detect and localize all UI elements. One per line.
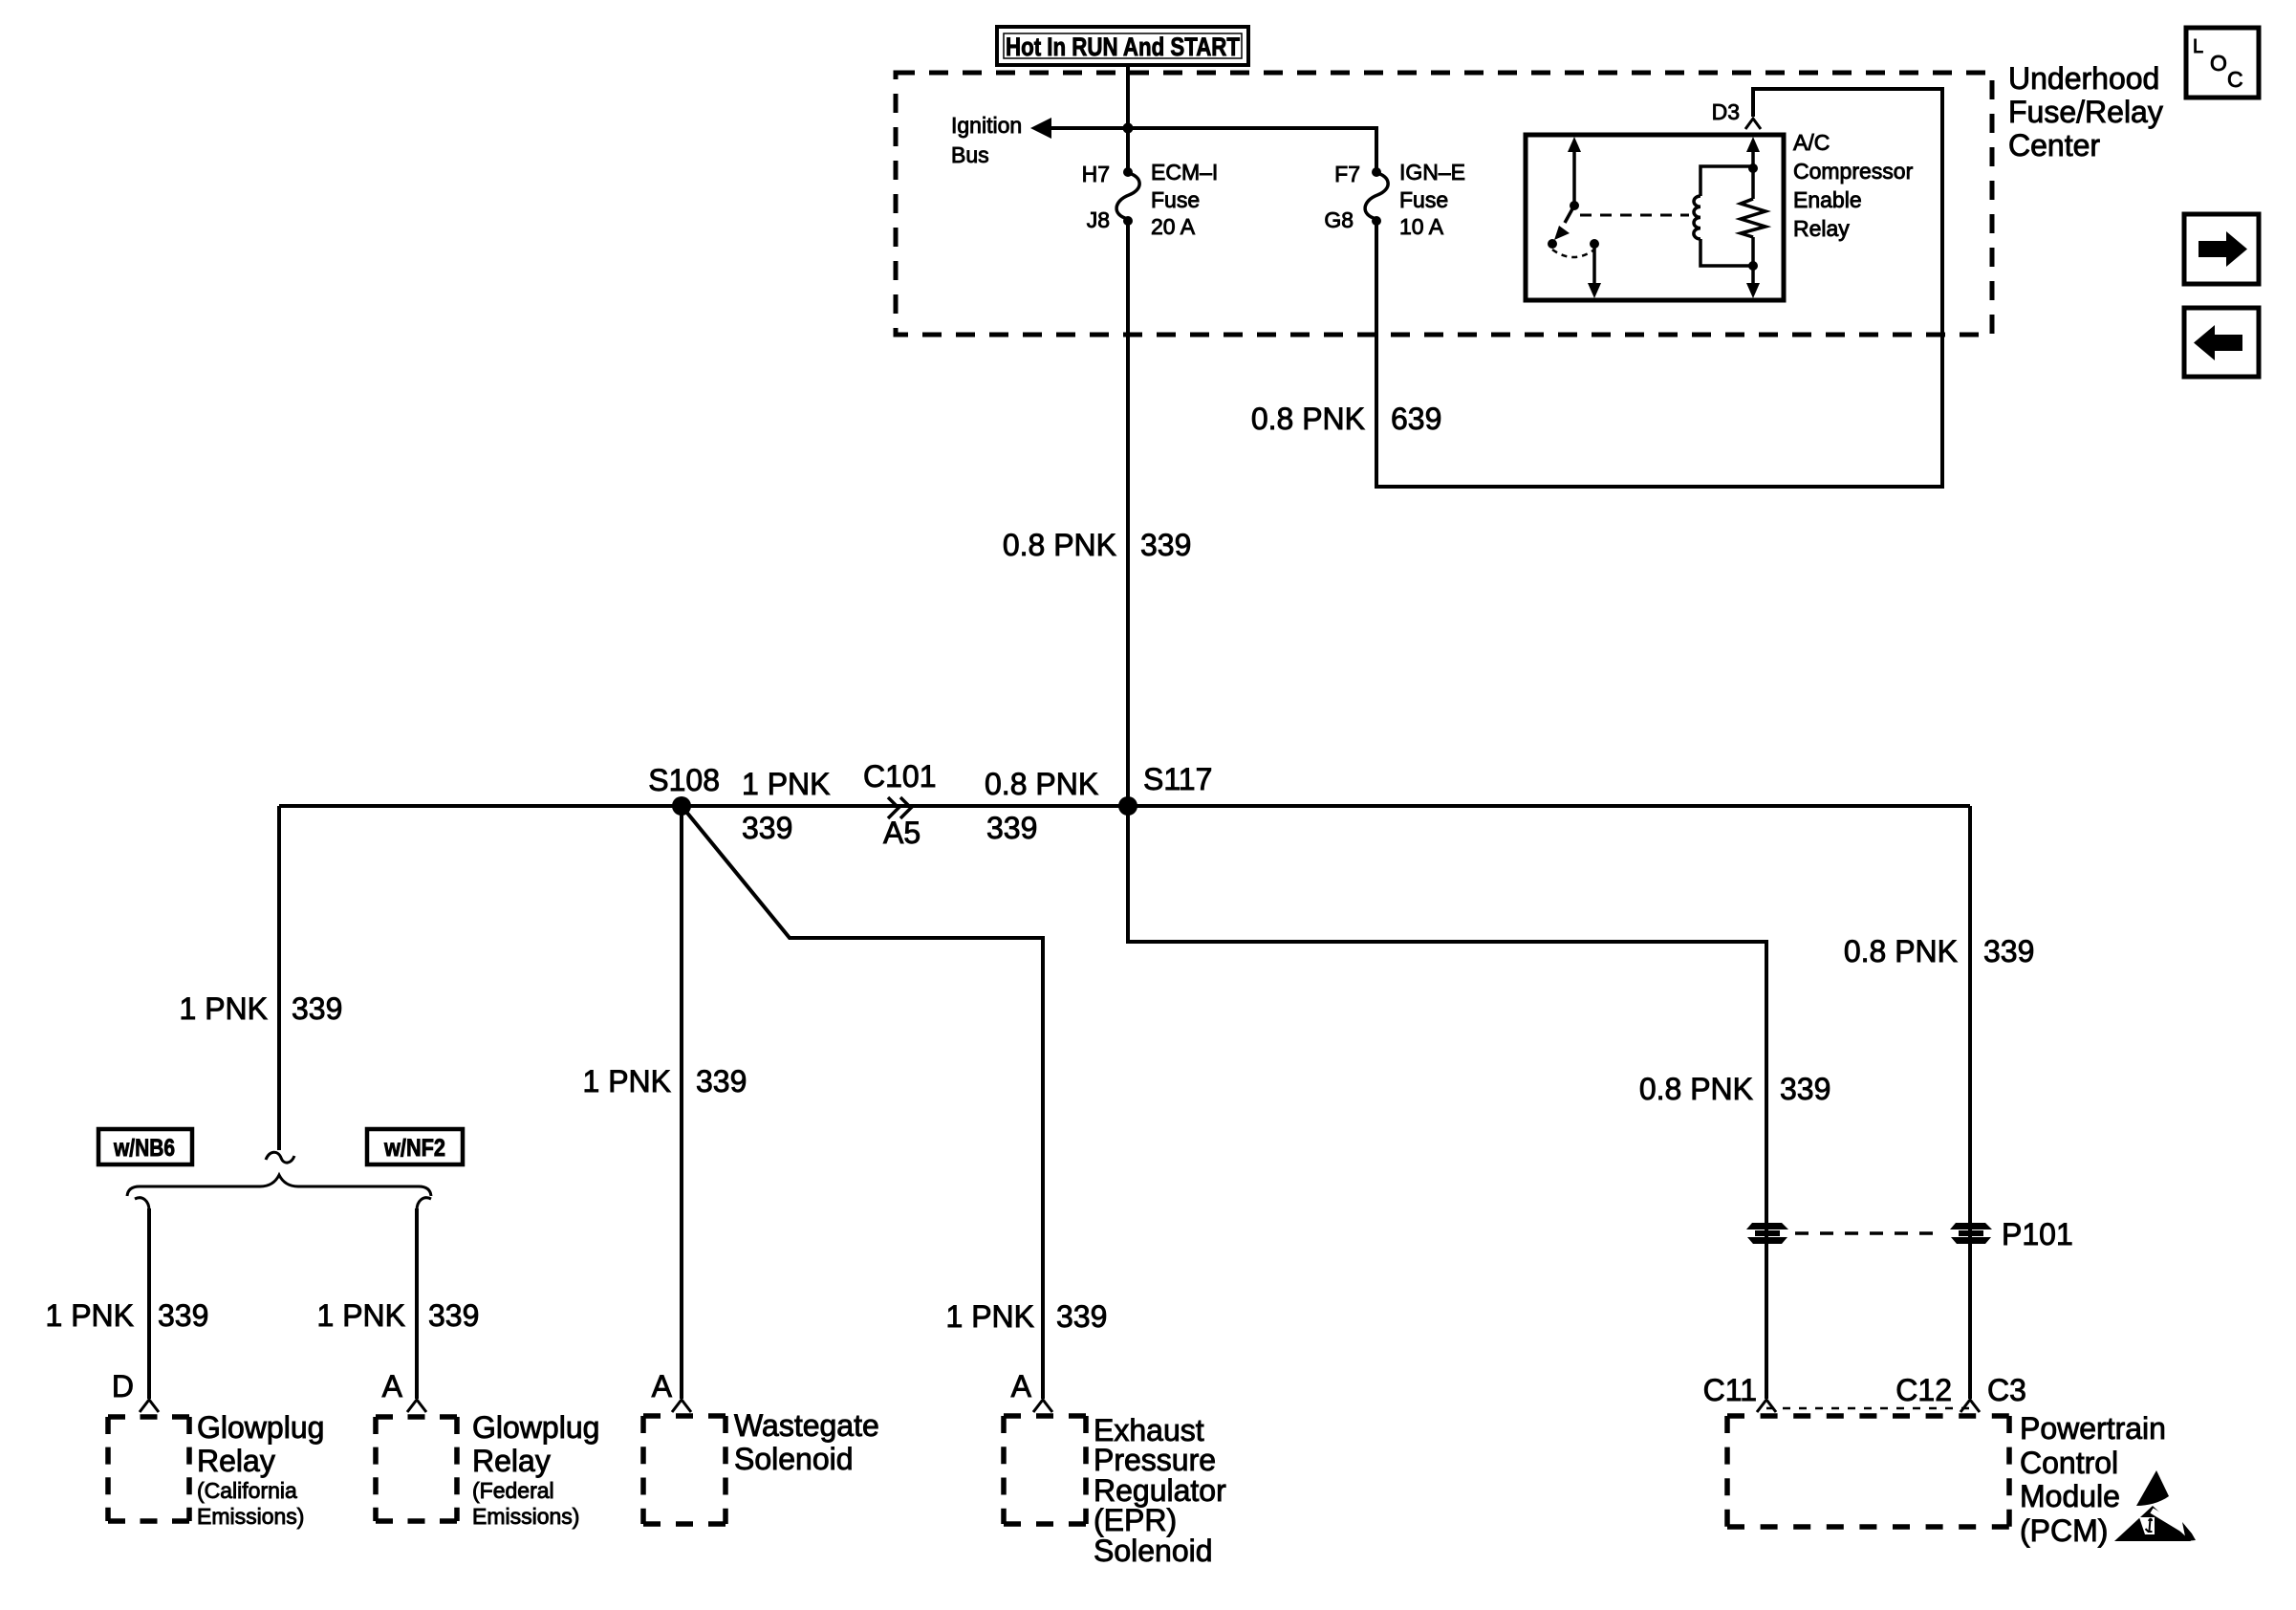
svg-text:10 A: 10 A (1399, 214, 1444, 239)
svg-text:w/NB6: w/NB6 (113, 1135, 175, 1162)
svg-text:A/C: A/C (1793, 130, 1830, 155)
svg-text:Hot In RUN And START: Hot In RUN And START (1006, 33, 1240, 61)
svg-text:A: A (652, 1369, 673, 1403)
svg-text:1 PNK: 1 PNK (742, 767, 830, 801)
svg-text:D3: D3 (1712, 99, 1740, 124)
svg-text:A: A (1011, 1369, 1032, 1403)
svg-text:C12: C12 (1895, 1373, 1952, 1407)
svg-text:Emissions): Emissions) (197, 1504, 304, 1529)
svg-text:(PCM): (PCM) (2020, 1513, 2108, 1548)
svg-text:339: 339 (1056, 1299, 1107, 1334)
svg-text:1 PNK: 1 PNK (180, 991, 268, 1026)
svg-text:Powertrain: Powertrain (2020, 1411, 2166, 1446)
svg-text:(EPR): (EPR) (1094, 1503, 1177, 1537)
svg-text:Solenoid: Solenoid (734, 1442, 854, 1476)
svg-text:A: A (382, 1369, 403, 1403)
svg-text:Fuse: Fuse (1399, 187, 1448, 212)
svg-text:(Federal: (Federal (472, 1478, 554, 1503)
svg-text:ECM–I: ECM–I (1151, 160, 1218, 185)
svg-text:G8: G8 (1324, 207, 1354, 232)
svg-text:0.8 PNK: 0.8 PNK (985, 767, 1098, 801)
svg-text:20 A: 20 A (1151, 214, 1196, 239)
svg-text:339: 339 (1780, 1072, 1830, 1106)
svg-text:w/NF2: w/NF2 (383, 1135, 445, 1162)
svg-text:1 PNK: 1 PNK (583, 1064, 671, 1099)
svg-text:O: O (2210, 51, 2227, 76)
svg-text:0.8 PNK: 0.8 PNK (1639, 1072, 1753, 1106)
svg-text:A5: A5 (883, 816, 921, 850)
svg-text:Fuse: Fuse (1151, 187, 1200, 212)
svg-text:(California: (California (197, 1478, 297, 1503)
svg-text:339: 339 (742, 811, 792, 845)
svg-text:0.8 PNK: 0.8 PNK (1003, 528, 1116, 562)
svg-text:Enable: Enable (1793, 187, 1862, 212)
svg-text:339: 339 (1140, 528, 1191, 562)
svg-text:339: 339 (292, 991, 342, 1026)
svg-text:F7: F7 (1334, 162, 1360, 186)
svg-text:Relay: Relay (197, 1444, 275, 1478)
svg-text:C3: C3 (1987, 1373, 2026, 1407)
svg-text:Bus: Bus (951, 142, 989, 167)
svg-text:S108: S108 (648, 763, 720, 797)
svg-text:J8: J8 (1087, 207, 1110, 232)
svg-text:339: 339 (158, 1298, 208, 1333)
svg-text:Pressure: Pressure (1094, 1443, 1216, 1477)
svg-text:1 PNK: 1 PNK (46, 1298, 134, 1333)
svg-text:Glowplug: Glowplug (472, 1410, 599, 1445)
svg-text:IGN–E: IGN–E (1399, 160, 1465, 185)
svg-text:1 PNK: 1 PNK (946, 1299, 1034, 1334)
svg-text:Glowplug: Glowplug (197, 1410, 324, 1445)
svg-text:1 PNK: 1 PNK (317, 1298, 405, 1333)
svg-text:0.8 PNK: 0.8 PNK (1844, 934, 1958, 968)
svg-text:Compressor: Compressor (1793, 159, 1914, 184)
svg-text:Solenoid: Solenoid (1094, 1534, 1213, 1568)
svg-text:339: 339 (1983, 934, 2034, 968)
svg-text:Module: Module (2020, 1479, 2120, 1513)
svg-text:C: C (2227, 67, 2243, 92)
svg-text:Relay: Relay (1793, 216, 1850, 241)
svg-text:Relay: Relay (472, 1444, 551, 1478)
svg-text:Wastegate: Wastegate (734, 1408, 879, 1443)
svg-text:639: 639 (1391, 402, 1441, 436)
svg-text:Ignition: Ignition (951, 113, 1022, 138)
svg-text:Center: Center (2008, 128, 2100, 163)
svg-text:0.8 PNK: 0.8 PNK (1251, 402, 1365, 436)
svg-text:Underhood: Underhood (2008, 61, 2159, 96)
svg-text:P101: P101 (2002, 1217, 2073, 1251)
svg-text:L: L (2193, 36, 2203, 57)
svg-text:H7: H7 (1082, 162, 1110, 186)
svg-text:S117: S117 (1143, 762, 1212, 796)
svg-text:339: 339 (986, 811, 1037, 845)
svg-text:C11: C11 (1703, 1373, 1757, 1407)
svg-text:Control: Control (2020, 1446, 2118, 1480)
svg-text:D: D (112, 1369, 134, 1403)
svg-text:Emissions): Emissions) (472, 1504, 579, 1529)
svg-text:C101: C101 (863, 759, 937, 794)
svg-text:Fuse/Relay: Fuse/Relay (2008, 95, 2163, 129)
svg-text:339: 339 (428, 1298, 479, 1333)
svg-text:339: 339 (696, 1064, 747, 1099)
